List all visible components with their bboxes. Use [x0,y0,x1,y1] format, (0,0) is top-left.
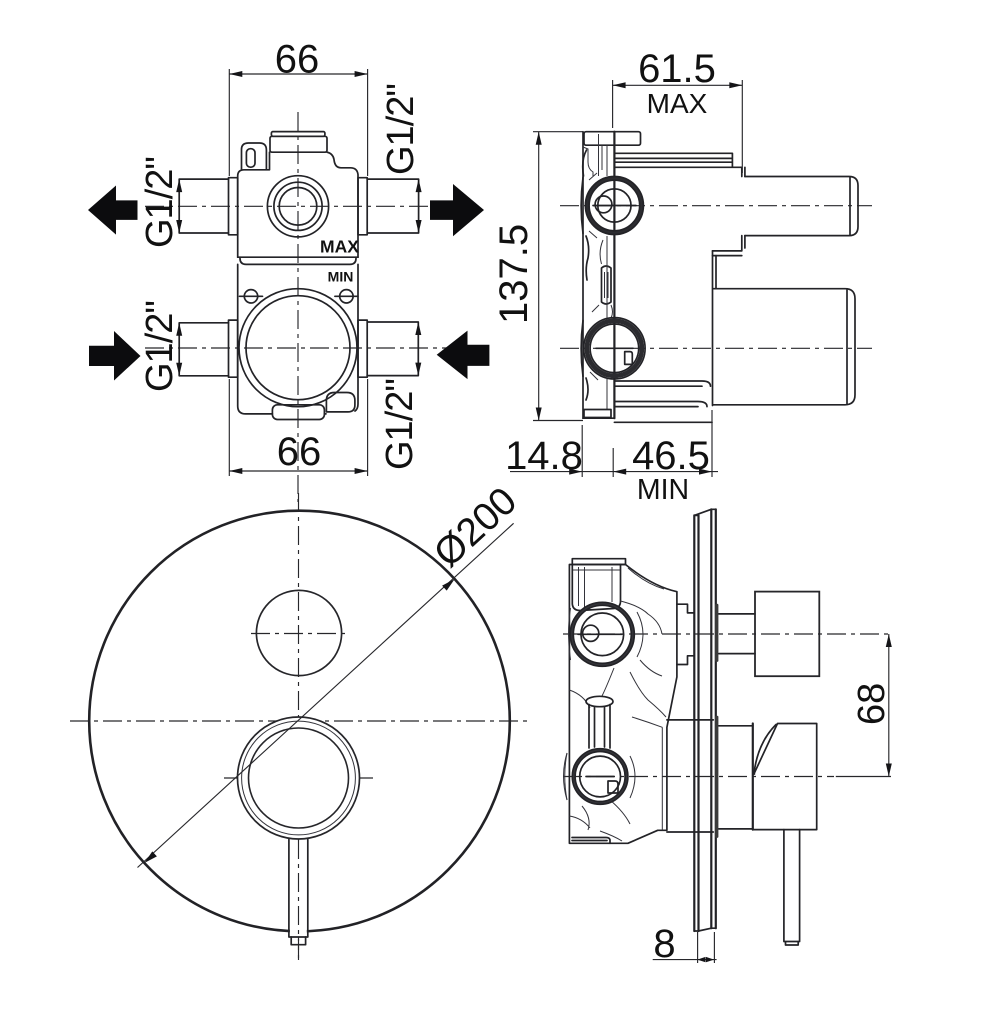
top port small hole assembled [583,625,599,641]
svg-text:G1/2": G1/2" [379,379,421,470]
gasket at handle base [715,716,718,838]
top port circle assembled ring [573,605,631,663]
body bottom edge [583,417,614,419]
dimension G1/2 bottom-left : arrows [176,323,182,336]
valve top cap [270,136,327,152]
valve top cap lip [271,132,325,137]
bottom port circle assembled bore [580,756,621,797]
dimension 66 top : dimension line [229,73,367,75]
body facet right of top port [637,612,662,676]
dimension G1/2 bottom-right : arrows [415,322,421,335]
trim plate circle [89,511,510,932]
dimension 14.8 46.5 : dimension line [510,471,718,473]
lever end cap front [291,937,305,945]
centerline bottom port side view [560,347,872,349]
lever shaft front [290,841,307,937]
svg-text:66: 66 [277,430,322,474]
body top cap side assembled [572,559,625,565]
body rear profile [582,132,584,419]
bottom port circle assembled ring [575,752,625,802]
cartridge circle outer [239,289,357,407]
side port bottom slot [596,347,633,349]
svg-text:G1/2": G1/2" [139,301,181,392]
top port circle outer [267,176,328,237]
dimension 61.5 MAX : extension lines [612,80,614,128]
svg-text:8: 8 [653,922,675,966]
body boss bulge left top [569,608,571,660]
body waist facets [569,668,666,717]
lower bracket tab lower [614,402,707,407]
lower body right notch tab [326,393,355,412]
dimension 66 top : extension lines [228,69,230,176]
upper body block outline [238,152,358,257]
diverter knob circle [256,590,341,675]
dimension 8 : dimension line [653,959,717,961]
lower body bottom cap [272,405,324,420]
flange top-left [229,178,238,235]
flange top-right [358,178,367,235]
handle ring middle [242,721,356,835]
body rear casting bulge top [583,150,589,280]
centerline top port side view [560,205,872,207]
dimension 66 bottom : extension lines [228,379,230,476]
handle escutcheon behind plate [667,720,713,832]
body inner casting line [606,145,608,409]
side port top small hole [595,196,612,213]
svg-text:MIN: MIN [637,474,689,506]
side port boss top : ring [589,180,640,231]
bottom port boss ring arc [564,753,568,800]
thermostat cap knurl lines [573,567,620,607]
side port boss top : bore [598,189,631,222]
pipe stub bottom-left [179,323,228,376]
top port slot assembled [578,633,622,635]
flow arrow top-left outward [88,186,138,235]
bottom port circle assembled bold ring [574,750,627,803]
upper body bottom lip [240,257,356,264]
side port boss bottom : bold ring [587,321,642,376]
dimension 68 : dimension line [888,634,890,777]
bottom port circle assembled outer [572,749,628,805]
cap side profile notches [583,134,602,176]
ear inner notch [246,149,255,168]
bottom cylinder side view [713,289,855,405]
top port circle assembled outer [570,602,634,666]
top port circle assembled bold ring [572,604,633,665]
screw right [340,290,353,303]
centerline handle axis [563,776,834,778]
handle body side view [753,724,817,830]
body casting outline [569,565,677,844]
flow arrow top-right outward [430,184,484,236]
pipe stub top-right [367,179,418,233]
body top cap side [584,132,641,146]
dimension G1/2 top-right : arrows [416,179,422,192]
screw right slot [335,295,358,297]
dimension D200 : arrow lower-left [144,851,157,863]
centerline vertical plate [298,493,300,960]
top port circle inner [279,188,317,226]
top port circle middle [274,182,322,230]
gasket at knob stem [715,604,718,662]
svg-text:G1/2": G1/2" [380,84,422,175]
lever centerline segment [298,840,300,960]
centerline horizontal bottom ports [145,347,480,349]
body bottom foot [584,410,611,418]
centerline knob axis [563,633,889,635]
centerline knob horizontal [251,633,348,635]
handle base face [752,724,754,830]
centerline horizontal top ports [145,205,475,207]
knob stem lines [719,614,755,654]
lower bracket bottom edge [614,421,712,423]
flow arrow bottom-left inward [89,331,141,381]
svg-text:MAX: MAX [647,88,708,119]
rear scallop top boss [581,178,583,234]
dimension 137.5 : dimension line [538,132,540,421]
screw stem above bottom port [586,696,613,706]
top port circle assembled bore [581,613,624,656]
trim plate side : left face [694,515,698,931]
pipe stub top-left [179,179,228,233]
handle ring inner [249,728,349,828]
side port boss top : bold ring [587,178,641,232]
centerline handle horizontal [224,777,373,779]
body boss bulge left bottom [565,753,567,800]
handle lever hinge arc [754,725,776,775]
top pipe end cap line [849,178,851,235]
bottom cylinder end cap line [846,290,848,404]
body facets bottom [569,800,630,841]
dimension 8 : extension lines [697,932,699,963]
pipe stub bottom-right [367,322,418,376]
body front face line [613,132,615,419]
svg-text:66: 66 [275,38,320,82]
dimension 14.8 46.5 : extension lines [581,425,583,477]
svg-text:137.5: 137.5 [492,224,536,324]
cylinder front face [713,251,717,406]
flange bottom-right [358,320,367,377]
dimension D200 : arrow upper-right [442,579,455,591]
top pipe stub side view [745,177,858,236]
trim plate side : top bevel [694,509,716,515]
dimension G1/2 top-left : arrows [176,179,182,192]
diverter stem step 1 [677,604,694,664]
side port bottom notch [625,352,633,365]
bottom port notch assembled [608,781,618,793]
side port boss bottom : outer [584,318,645,379]
flow arrow bottom-right inward [437,331,490,380]
neck inner detail [600,240,612,318]
lower bracket tab upper [614,381,710,386]
screw left [244,290,257,303]
dimension 137.5 : extension lines [533,131,583,133]
flange bottom-left [229,320,238,377]
diverter knob side view [755,592,819,677]
screw left slot [240,295,263,297]
dimension 66 bottom : dimension line [229,470,367,472]
lower body block [238,264,358,414]
upper body bottom line [238,256,358,258]
dimension D200 : leader line [138,523,514,867]
body rear casting bulge bottom [586,378,588,400]
trim plate side : bottom edge [694,928,716,931]
step below top pipe [713,236,745,256]
svg-text:68: 68 [851,683,893,725]
lever rod side view [784,830,800,945]
centerline horizontal plate [70,720,529,722]
dimension 68 : connector line [836,776,891,778]
bottom port slot assembled [586,776,614,778]
svg-text:MAX: MAX [320,237,359,257]
svg-text:61.5: 61.5 [638,47,716,91]
side port boss bottom : ring [590,324,639,373]
svg-text:MIN: MIN [328,269,354,285]
svg-text:G1/2": G1/2" [139,157,181,248]
top mounting bracket lines [614,153,741,167]
side port top slot [593,205,636,207]
thermostat cap block [572,565,620,611]
body right shoulder to pipe [742,167,745,176]
svg-text:14.8: 14.8 [505,434,583,478]
facet diagonals top boss [589,173,599,380]
handle base cylinder [719,726,753,829]
trim plate side : right face [711,509,716,928]
cartridge circle inner [246,296,350,400]
centerline vertical view A [297,112,299,502]
svg-text:46.5: 46.5 [632,434,710,478]
dimension 61.5 MAX : dimension line [613,84,743,86]
handle rosette inner line [661,727,663,830]
body facet right of bottom port [630,717,662,798]
handle ring outer [238,717,360,839]
rear scallop bottom boss [581,321,583,377]
body facet top-right [621,568,665,634]
neck between bosses [602,266,612,304]
body bottom foot [572,838,610,844]
top-left ear lug [242,143,267,170]
side port boss top : outer [585,177,643,235]
